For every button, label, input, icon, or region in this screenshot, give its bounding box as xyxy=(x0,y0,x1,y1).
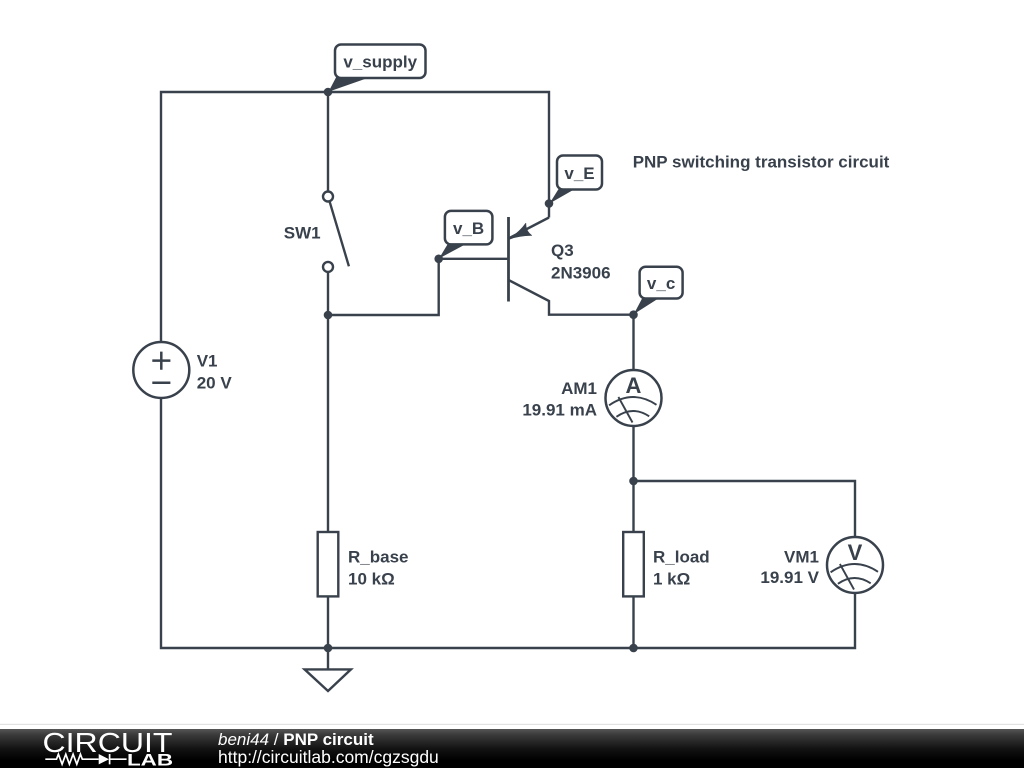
net label v_c xyxy=(634,267,683,315)
svg-text:19.91 mA: 19.91 mA xyxy=(522,401,597,420)
svg-text:PNP switching transistor circu: PNP switching transistor circuit xyxy=(633,152,890,171)
svg-text:v_supply: v_supply xyxy=(343,53,417,72)
voltmeter VM1 xyxy=(827,537,883,593)
svg-text:AM1: AM1 xyxy=(561,379,597,398)
node switch-base junction xyxy=(324,311,333,320)
node v_E anchor xyxy=(545,199,554,208)
svg-text:1 kΩ: 1 kΩ xyxy=(653,570,690,589)
wire top rail v_supply net with left branch and emitter drop xyxy=(161,92,549,342)
wire R_base to bottom rail xyxy=(327,596,329,648)
logo diode xyxy=(99,754,109,764)
svg-text:20 V: 20 V xyxy=(197,374,233,393)
svg-text:R_load: R_load xyxy=(653,547,710,566)
svg-text:http://circuitlab.com/cgzsgdu: http://circuitlab.com/cgzsgdu xyxy=(218,747,439,767)
node v_supply junction xyxy=(324,88,333,97)
transistor Q3 2N3906 xyxy=(509,217,634,315)
svg-text:v_B: v_B xyxy=(453,219,484,238)
logo resistor zigzag xyxy=(45,754,98,764)
wire R_load to bottom rail xyxy=(632,596,634,648)
svg-text:2N3906: 2N3906 xyxy=(551,264,611,283)
wire R_base branch down xyxy=(327,315,329,532)
resistor R_base xyxy=(318,532,339,596)
ground xyxy=(305,669,351,691)
svg-text:V: V xyxy=(848,540,863,565)
wire ammeter to load node xyxy=(632,426,634,532)
wire ground stem xyxy=(327,648,329,669)
svg-text:LAB: LAB xyxy=(127,752,173,768)
node load-bottom junction xyxy=(629,644,638,653)
resistor R_load xyxy=(623,532,644,596)
wire switch to node xyxy=(327,272,329,315)
voltage source V1 xyxy=(133,342,189,398)
node v_B anchor xyxy=(434,254,443,263)
svg-text:V1: V1 xyxy=(197,352,218,371)
wire left branch lower, bottom rail, voltmeter riser xyxy=(161,398,855,648)
wire base link from node to transistor base xyxy=(328,259,507,315)
svg-text:v_c: v_c xyxy=(647,274,675,293)
svg-text:Q3: Q3 xyxy=(551,241,574,260)
svg-text:VM1: VM1 xyxy=(784,547,819,566)
switch SW1 xyxy=(323,192,349,272)
svg-text:SW1: SW1 xyxy=(284,224,321,243)
node ground junction xyxy=(324,644,333,653)
transistor Q3 emitter arrow xyxy=(509,223,531,239)
net label v_E xyxy=(550,156,603,204)
wire voltmeter branch horizontal and down xyxy=(634,481,856,537)
net label v_supply xyxy=(329,45,426,92)
svg-text:R_base: R_base xyxy=(348,547,408,566)
footer separator line xyxy=(0,724,1024,725)
svg-text:A: A xyxy=(626,373,642,398)
node ammeter-voltmeter junction xyxy=(629,477,638,486)
wire switch branch from top rail xyxy=(327,92,329,192)
svg-text:10 kΩ: 10 kΩ xyxy=(348,570,395,589)
svg-text:19.91 V: 19.91 V xyxy=(760,568,819,587)
node v_c anchor xyxy=(629,310,638,319)
svg-text:v_E: v_E xyxy=(564,164,594,183)
net label v_B xyxy=(439,211,492,259)
ammeter AM1 xyxy=(606,370,662,426)
wire collector to ammeter xyxy=(632,315,634,370)
